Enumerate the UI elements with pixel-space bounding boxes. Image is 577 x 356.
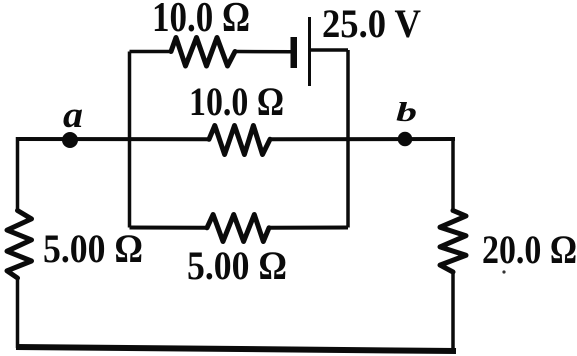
svg-text:25.0 V: 25.0 V xyxy=(322,1,421,46)
wire: bottom branch xyxy=(16,347,456,351)
resistor R 10.0 ohm (middle) zigzag xyxy=(209,126,270,155)
svg-text:5.00 Ω: 5.00 Ω xyxy=(43,226,143,271)
battery B1 negative plate (thick short) xyxy=(291,37,298,68)
wire: left outer vertical lower xyxy=(16,278,20,348)
wire: inner loop left vertical xyxy=(128,52,132,228)
svg-text:10.0 Ω: 10.0 Ω xyxy=(152,0,250,41)
wire: middle branch right of resistor xyxy=(271,137,455,141)
stray speck xyxy=(502,270,505,273)
wire: top branch left segment xyxy=(130,50,172,54)
resistor R 5.00 ohm (left outer) zigzag xyxy=(7,211,32,279)
resistor R 10.0 ohm (top) zigzag xyxy=(171,38,235,67)
svg-text:a: a xyxy=(63,95,83,136)
svg-text:20.0 Ω: 20.0 Ω xyxy=(482,227,577,272)
node a dot xyxy=(62,132,78,148)
svg-text:5.00 Ω: 5.00 Ω xyxy=(187,243,287,288)
node b dot xyxy=(398,132,413,147)
wire: inner bottom branch left segment xyxy=(130,226,208,230)
wire: right outer vertical lower xyxy=(451,272,455,351)
wire: battery to inner-right corner xyxy=(311,48,348,52)
battery B1 positive plate (thin long) xyxy=(308,17,311,86)
wire: left outer vertical upper xyxy=(16,137,20,211)
resistor R 20.0 ohm (right outer) zigzag xyxy=(440,211,466,273)
wire: inner loop right vertical xyxy=(346,50,350,228)
wire: top branch to battery xyxy=(236,50,291,54)
wire: right outer vertical upper xyxy=(451,137,455,211)
wire: inner bottom branch right segment xyxy=(269,226,348,230)
resistor R 5.00 ohm (inner bottom) zigzag xyxy=(207,215,269,242)
wire: middle branch left of resistor xyxy=(16,137,209,141)
svg-text:10.0 Ω: 10.0 Ω xyxy=(189,79,284,124)
svg-text:b: b xyxy=(396,97,417,127)
